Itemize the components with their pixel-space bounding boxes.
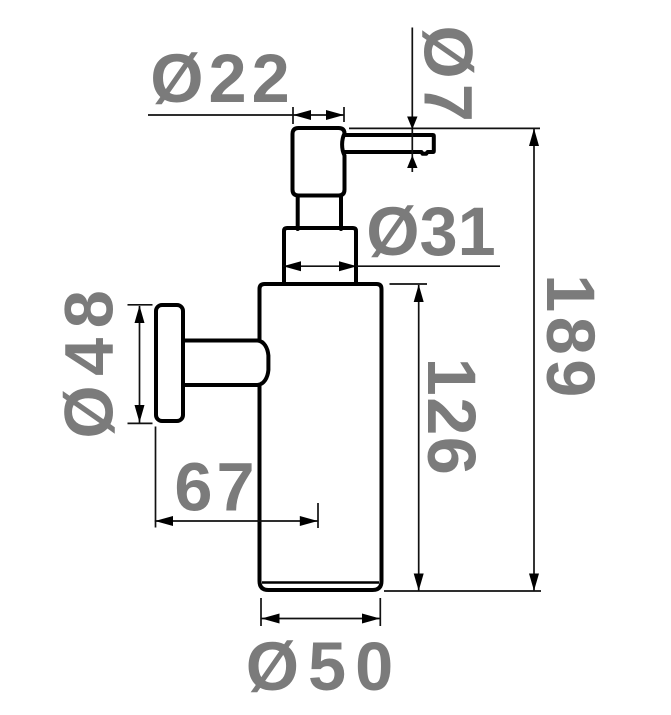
Ø7 bottom arrowhead <box>407 155 417 168</box>
Ø22 right arrowhead <box>326 110 344 120</box>
bottle body <box>260 284 382 590</box>
spout <box>342 135 434 154</box>
Ø48 bottom arrowhead <box>135 405 145 423</box>
Ø50 left arrowhead <box>262 614 280 624</box>
Ø7 top arrowhead <box>407 117 417 130</box>
dim Ø48 bottom extension line <box>128 422 153 424</box>
dim 189 top extension line <box>349 127 540 129</box>
svg-text:Ø31: Ø31 <box>366 193 495 270</box>
svg-text:Ø7: Ø7 <box>410 25 487 126</box>
dim Ø48 top extension line <box>128 304 153 306</box>
dim 67 center extension tick <box>317 503 319 528</box>
126 bottom arrowhead <box>414 574 424 591</box>
svg-text:Ø48: Ø48 <box>51 281 128 439</box>
pump head <box>293 128 345 196</box>
dim 189 line <box>533 129 535 591</box>
Ø48 top arrowhead <box>135 306 145 324</box>
collar <box>284 228 356 283</box>
Ø22 left arrowhead <box>293 110 311 120</box>
dim Ø50 right extension tick <box>379 598 381 626</box>
189 bottom arrowhead <box>529 574 539 591</box>
dim Ø22 line <box>148 114 344 116</box>
dim Ø31 line <box>283 265 500 267</box>
dim Ø48 line <box>139 306 141 423</box>
dim 67 line <box>155 520 318 522</box>
svg-text:126: 126 <box>413 358 490 477</box>
pump neck <box>298 197 341 230</box>
dim Ø50 line <box>262 618 381 620</box>
189 top arrowhead <box>529 129 539 147</box>
body inner bottom line <box>262 581 379 584</box>
dim Ø7 line <box>411 28 413 173</box>
dim Ø50 left extension tick <box>260 598 262 626</box>
bottom extension line shared by 126/189 <box>384 590 541 592</box>
dim 67 left extension line <box>155 427 157 528</box>
Ø50 right arrowhead <box>362 614 380 624</box>
67 right arrowhead <box>300 516 318 526</box>
wall plate <box>156 305 183 421</box>
svg-text:Ø22: Ø22 <box>150 40 294 117</box>
svg-text:189: 189 <box>532 274 609 402</box>
Ø31 right arrowhead <box>339 261 357 271</box>
126 top arrowhead <box>414 285 424 303</box>
wall arm <box>185 341 268 386</box>
svg-text:67: 67 <box>174 449 258 526</box>
svg-text:Ø50: Ø50 <box>246 628 402 705</box>
dim Ø22 left extension tick <box>292 107 294 124</box>
dim 126 top extension line <box>390 283 428 285</box>
dim 126 line <box>418 285 420 591</box>
Ø31 left arrowhead <box>283 261 301 271</box>
dim Ø22 right extension tick <box>343 107 345 122</box>
67 left arrowhead <box>155 516 173 526</box>
